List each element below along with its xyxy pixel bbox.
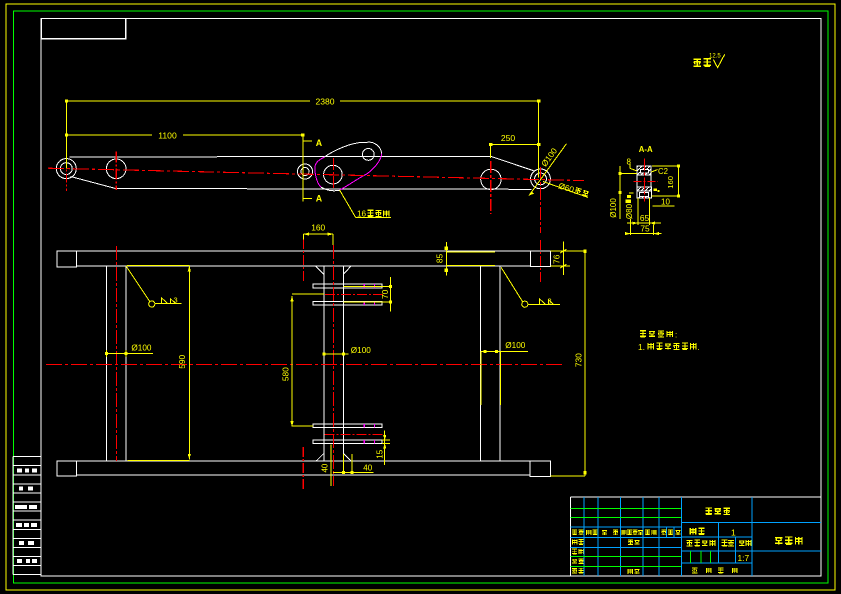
top beam right end block xyxy=(530,251,550,266)
svg-text:.: . xyxy=(698,343,700,352)
dimension 65 section xyxy=(627,198,661,225)
lug plate outline magenta left xyxy=(315,157,325,187)
column top gussets xyxy=(316,266,351,274)
svg-text:75: 75 xyxy=(640,223,650,233)
weld symbol left xyxy=(126,266,181,307)
dimension 590 xyxy=(127,266,191,461)
svg-text:1:7: 1:7 xyxy=(738,553,750,563)
svg-text:65: 65 xyxy=(640,213,650,223)
svg-text:Ø80: Ø80 xyxy=(625,203,634,219)
svg-text:Ø100: Ø100 xyxy=(505,341,525,350)
title block green horizontals left table xyxy=(570,509,681,567)
red centerline hole4 vertical xyxy=(490,161,492,214)
leader C2 xyxy=(651,170,657,172)
dimension 10 section xyxy=(653,205,675,207)
title block outer white xyxy=(570,497,821,576)
svg-text:2380: 2380 xyxy=(315,96,334,106)
top beam xyxy=(77,251,531,266)
left margin binding strip xyxy=(13,457,41,575)
green tick marks stage row xyxy=(691,551,711,563)
weld symbol right xyxy=(501,267,560,307)
lug plate outline white bottom xyxy=(321,187,340,191)
svg-text:40: 40 xyxy=(363,463,372,472)
svg-text:590: 590 xyxy=(177,354,187,368)
dimension 75 section xyxy=(625,219,661,235)
red centerline section trace top xyxy=(302,239,304,282)
svg-text:C2: C2 xyxy=(658,167,668,176)
text: quantity label xyxy=(690,528,705,534)
main red centerline horizontal xyxy=(48,168,584,180)
text: header row small labels xyxy=(572,530,680,535)
dimension dia100 left tube xyxy=(105,350,153,357)
svg-text:160: 160 xyxy=(311,223,325,233)
svg-text:8: 8 xyxy=(627,158,632,167)
svg-text:250: 250 xyxy=(501,133,516,143)
svg-text:580: 580 xyxy=(281,367,291,381)
top beam left end block xyxy=(57,251,77,267)
dimension 1100 xyxy=(65,133,305,136)
dimension 580 xyxy=(290,294,323,427)
dimension dia100 right tube xyxy=(481,350,528,405)
small marks right of section xyxy=(653,188,659,192)
svg-text:160: 160 xyxy=(666,176,675,189)
svg-text:Ø100: Ø100 xyxy=(131,343,151,352)
dimension dia100 section xyxy=(619,166,638,219)
svg-text:A: A xyxy=(316,138,323,148)
text: stage mark row labels xyxy=(687,540,751,546)
section lower hatched band xyxy=(637,187,651,191)
lug plate outline white top xyxy=(325,142,382,157)
dimension 76 xyxy=(550,241,570,275)
dimension 15 (plate thickness) xyxy=(382,430,390,465)
title block cyan horizontals left table xyxy=(570,527,681,547)
svg-text:1: 1 xyxy=(731,527,736,537)
svg-text:15: 15 xyxy=(375,449,384,458)
red main horizontal centerline front view xyxy=(46,363,562,365)
dimension 250 xyxy=(489,143,540,158)
dimension dia80 section xyxy=(626,193,634,203)
beam bottom edge xyxy=(116,188,532,191)
center column xyxy=(324,266,344,461)
svg-text:85: 85 xyxy=(435,254,445,264)
beam right taper edge xyxy=(491,156,534,171)
hole circle 3 (A-A cut) xyxy=(298,164,313,179)
rail plate 2 xyxy=(313,301,382,305)
svg-text:10: 10 xyxy=(661,198,670,207)
svg-text:A-A: A-A xyxy=(639,145,653,154)
section red centerline horizontal xyxy=(633,180,658,182)
hole circle 2 xyxy=(106,159,126,179)
section line A-A xyxy=(303,135,312,202)
svg-text:3: 3 xyxy=(548,296,552,305)
section bottom hole xyxy=(640,192,649,196)
hole circle 4 xyxy=(481,169,501,189)
leader 8 xyxy=(630,164,637,171)
text: designer rows labels xyxy=(572,539,639,573)
left lug hole xyxy=(60,163,72,175)
svg-text:Ø100: Ø100 xyxy=(609,198,618,218)
red centerline section trace bottom xyxy=(302,447,304,489)
plate big hole xyxy=(324,165,343,184)
svg-text:12.5: 12.5 xyxy=(709,54,721,60)
red centerline left tube xyxy=(115,246,117,461)
left strip labels xyxy=(15,469,37,564)
svg-text:40: 40 xyxy=(321,463,330,472)
dimension 730 xyxy=(550,250,586,477)
technical requirements text xyxy=(640,331,673,337)
magenta hidden ticks plates xyxy=(364,284,374,444)
dimension 85 xyxy=(445,242,495,276)
beam left taper edge xyxy=(71,177,116,189)
top-left accessory block xyxy=(41,19,125,39)
svg-text:1.: 1. xyxy=(638,342,645,352)
text: sheets row xyxy=(692,568,737,573)
svg-text:16: 16 xyxy=(357,209,367,218)
svg-text:76: 76 xyxy=(551,254,561,264)
left tube xyxy=(106,266,125,461)
right tip hole xyxy=(535,173,547,185)
section bottom block xyxy=(637,191,651,198)
dimensions 40 40 at column base xyxy=(331,445,374,486)
bottom beam xyxy=(77,461,531,475)
section pipe body xyxy=(637,175,651,187)
red centerline plate hole vertical xyxy=(332,158,334,190)
red centerline right block vertical xyxy=(539,240,541,282)
title block cyan verticals left table xyxy=(584,497,674,576)
column bottom gussets xyxy=(316,454,352,462)
right tube xyxy=(481,266,501,461)
leader dia100 top view xyxy=(529,144,566,196)
svg-text:1100: 1100 xyxy=(158,130,177,140)
red centerline center column xyxy=(332,245,334,486)
surface finish note (quan bu + symbol) xyxy=(693,59,711,67)
dimension 2380 xyxy=(65,99,541,177)
svg-text:730: 730 xyxy=(573,353,583,367)
section top flange hole xyxy=(640,169,648,173)
svg-text:70: 70 xyxy=(380,289,390,299)
red centerline right tip vertical xyxy=(539,167,541,233)
svg-text:Ø100: Ø100 xyxy=(351,346,371,355)
leader dia60 top view xyxy=(543,182,588,198)
dimension 70 (rail gap) xyxy=(343,277,392,312)
red centerline lug vertical xyxy=(65,159,67,192)
red centerline bottom rails xyxy=(325,434,383,436)
dimension 160 (top of column) xyxy=(303,233,333,245)
left lug outer circle xyxy=(56,159,76,179)
dimension 160 section xyxy=(651,164,680,197)
svg-text:A: A xyxy=(316,194,323,204)
section red centerline vertical xyxy=(643,159,645,202)
rail plate 3 xyxy=(313,424,382,427)
text: part name (welded part) xyxy=(705,508,730,515)
text: drawing name right xyxy=(775,537,802,544)
red centerline top rails xyxy=(325,293,383,295)
svg-text:3: 3 xyxy=(174,296,178,305)
dimension dia100 center column xyxy=(322,352,348,355)
lug plate outline magenta right xyxy=(340,154,382,191)
roughness symbol xyxy=(713,54,724,67)
title block middle/right cyan lines xyxy=(682,497,822,576)
rail plate 1 xyxy=(313,284,382,288)
right tip outer circle xyxy=(531,169,551,189)
beam top edge xyxy=(69,155,490,158)
rail plate 4 xyxy=(313,440,382,443)
section top flange hatched xyxy=(637,166,651,175)
bottom beam right end block xyxy=(530,461,551,476)
bottom beam left end block xyxy=(57,461,77,476)
plate small hole xyxy=(362,149,374,161)
leader 16 channel steel xyxy=(340,190,391,217)
red centerline hole2 vertical xyxy=(115,152,117,191)
svg-text::: : xyxy=(675,331,677,340)
